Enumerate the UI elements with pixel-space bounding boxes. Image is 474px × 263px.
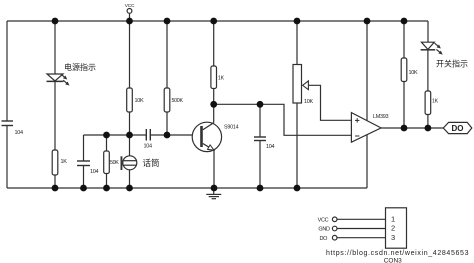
- wire: pull-up 10K to output node: [403, 82, 405, 129]
- wire: op-amp V+ pin to top rail: [366, 21, 368, 120]
- junction: bottom rail / mic: [126, 185, 133, 192]
- resistor 1K (below LED1): [52, 150, 58, 175]
- terminal VCC circle: [127, 9, 132, 14]
- svg-text:1K: 1K: [61, 159, 68, 165]
- svg-text:VCC: VCC: [125, 3, 135, 9]
- wire: 50K bottom lead: [106, 174, 108, 189]
- wire: 500K bottom lead: [166, 112, 168, 135]
- junction: bottom rail / cap 104: [80, 185, 87, 192]
- wire: R 1K to bottom rail: [54, 175, 56, 188]
- svg-text:CON3: CON3: [384, 257, 402, 263]
- svg-text:104: 104: [266, 144, 275, 150]
- junction: base node / 500K: [164, 132, 171, 139]
- wire: pot wiper to comparator + input: [308, 85, 351, 120]
- junction: top rail / VCC 10K: [126, 18, 133, 25]
- svg-text:3: 3: [391, 233, 395, 242]
- capacitor 104 (filter): [254, 137, 266, 141]
- resistor 10K (pull-up): [401, 58, 407, 82]
- wire: DO to pin3: [337, 237, 386, 239]
- capacitor 104 (far left): [2, 121, 14, 126]
- terminal circle VCC: [332, 217, 337, 222]
- wire: coupling cap to base: [150, 134, 200, 136]
- svg-text:DO: DO: [320, 236, 329, 242]
- terminal circle GND: [332, 226, 337, 231]
- resistor 10K (mic bias): [127, 88, 133, 112]
- wire: op-amp V- pin to bottom rail: [366, 134, 368, 188]
- wire: VCC stub: [129, 13, 131, 21]
- svg-text:VCC: VCC: [318, 218, 329, 224]
- wire: potentiometer top lead: [296, 21, 298, 65]
- junction: bottom rail / pot: [294, 185, 301, 192]
- wire: mic node horizontal (y=135) left part: [84, 134, 147, 136]
- resistor 1K (LED2): [425, 91, 431, 115]
- connector CON3: [386, 208, 407, 248]
- junction: output / pull-up: [401, 125, 408, 132]
- wire: mic bottom lead: [129, 170, 131, 188]
- op-amp U1 LM393: [351, 113, 381, 143]
- wire: VCC to pin1: [337, 218, 386, 220]
- svg-text:104: 104: [15, 130, 24, 136]
- wire: left branch vertical (top): [6, 21, 8, 121]
- junction: top rail / pull-up 10K: [401, 18, 408, 25]
- wire: 1K collector resistor bottom lead: [213, 89, 215, 105]
- junction: bottom rail / emitter: [211, 185, 218, 192]
- resistor 1K (collector): [211, 66, 217, 89]
- svg-text:50K: 50K: [110, 160, 119, 166]
- svg-text:2: 2: [391, 224, 395, 233]
- resistor 50K: [104, 151, 110, 174]
- wire: 10K lower lead: [129, 112, 131, 135]
- svg-text:电源指示: 电源指示: [64, 62, 96, 72]
- wire: pull-up 10K branch: [403, 21, 405, 58]
- svg-text:https://blog.csdn.net/weixin_4: https://blog.csdn.net/weixin_42845653: [326, 250, 469, 257]
- svg-text:开关指示: 开关指示: [436, 59, 468, 69]
- LED D2 switch-indicator: [421, 42, 434, 49]
- wire: op-amp output: [381, 127, 443, 129]
- svg-text:500K: 500K: [172, 98, 184, 104]
- wire: collector up: [213, 104, 215, 123]
- terminal circle DO: [332, 235, 337, 240]
- junction: mic node / 50K: [103, 132, 110, 139]
- wire: filter cap to bottom rail: [259, 141, 261, 189]
- wire: LED1 branch from top rail: [54, 21, 56, 74]
- svg-text:1K: 1K: [432, 99, 439, 105]
- junction: top rail / LED1: [52, 18, 59, 25]
- junction: top rail / 500K: [164, 18, 171, 25]
- microphone MIC (electret): [123, 156, 137, 170]
- svg-text:1: 1: [391, 215, 395, 224]
- svg-text:1K: 1K: [218, 76, 225, 82]
- wire: cap to bottom rail: [83, 166, 85, 189]
- junction: mic node / 10K+mic: [126, 132, 133, 139]
- wire: cap 104 branch down: [83, 135, 85, 161]
- wire: GND to pin2: [337, 228, 386, 230]
- wire: left branch vertical (bottom): [6, 126, 8, 189]
- svg-text:104: 104: [90, 169, 99, 175]
- wire: 50K top lead: [106, 135, 108, 151]
- svg-text:GND: GND: [318, 227, 330, 233]
- LED D1 power-indicator: [47, 74, 63, 81]
- svg-text:DO: DO: [452, 124, 464, 133]
- wire: LED1 to R 1K: [54, 81, 56, 150]
- junction: bottom rail / filter cap: [257, 185, 264, 192]
- svg-text:S9014: S9014: [224, 125, 239, 131]
- resistor 500K: [164, 88, 170, 112]
- svg-text:10K: 10K: [409, 70, 419, 76]
- junction: bottom rail / 50K: [103, 185, 110, 192]
- svg-text:话筒: 话筒: [143, 158, 160, 168]
- svg-text:10K: 10K: [135, 98, 145, 104]
- junction: collector wire / filter cap: [257, 101, 264, 108]
- wire: LED2 to 1K: [427, 50, 429, 91]
- port DO flag: [443, 122, 472, 133]
- junction: bottom rail / 1K LED1: [52, 185, 59, 192]
- junction: output / LED2 1K: [425, 125, 432, 132]
- wire: pot bottom lead: [296, 103, 298, 188]
- ground symbol: [206, 188, 221, 199]
- potentiometer 10K: [293, 65, 302, 104]
- wire: 1K to output node: [427, 115, 429, 129]
- svg-text:LM393: LM393: [373, 114, 389, 120]
- wire: emitter down to rail: [213, 150, 215, 188]
- wire: collector node to comparator (horizontal): [214, 104, 352, 135]
- junction: top rail / op-amp V+: [364, 18, 371, 25]
- capacitor 104 (mic node to ground): [77, 161, 90, 166]
- junction: top rail / 1K collector: [210, 18, 217, 25]
- svg-text:104: 104: [144, 144, 153, 150]
- wire: filter cap branch: [259, 104, 261, 137]
- transistor Q1 S9014: [192, 122, 221, 151]
- wire: 500K top lead: [166, 21, 168, 88]
- wire: 1K top lead to rail: [213, 21, 215, 66]
- svg-text:10K: 10K: [304, 99, 314, 105]
- wire: top VCC rail: [7, 20, 428, 22]
- junction: top rail / pot: [294, 18, 301, 25]
- wire: mic top lead: [129, 135, 131, 156]
- wire: bottom ground rail: [7, 187, 367, 189]
- wire: 10K column upper lead: [129, 21, 131, 88]
- capacitor 104 (coupling): [146, 129, 150, 141]
- wire: top rail right corner to LED2: [427, 21, 429, 42]
- junction: collector node: [210, 101, 217, 108]
